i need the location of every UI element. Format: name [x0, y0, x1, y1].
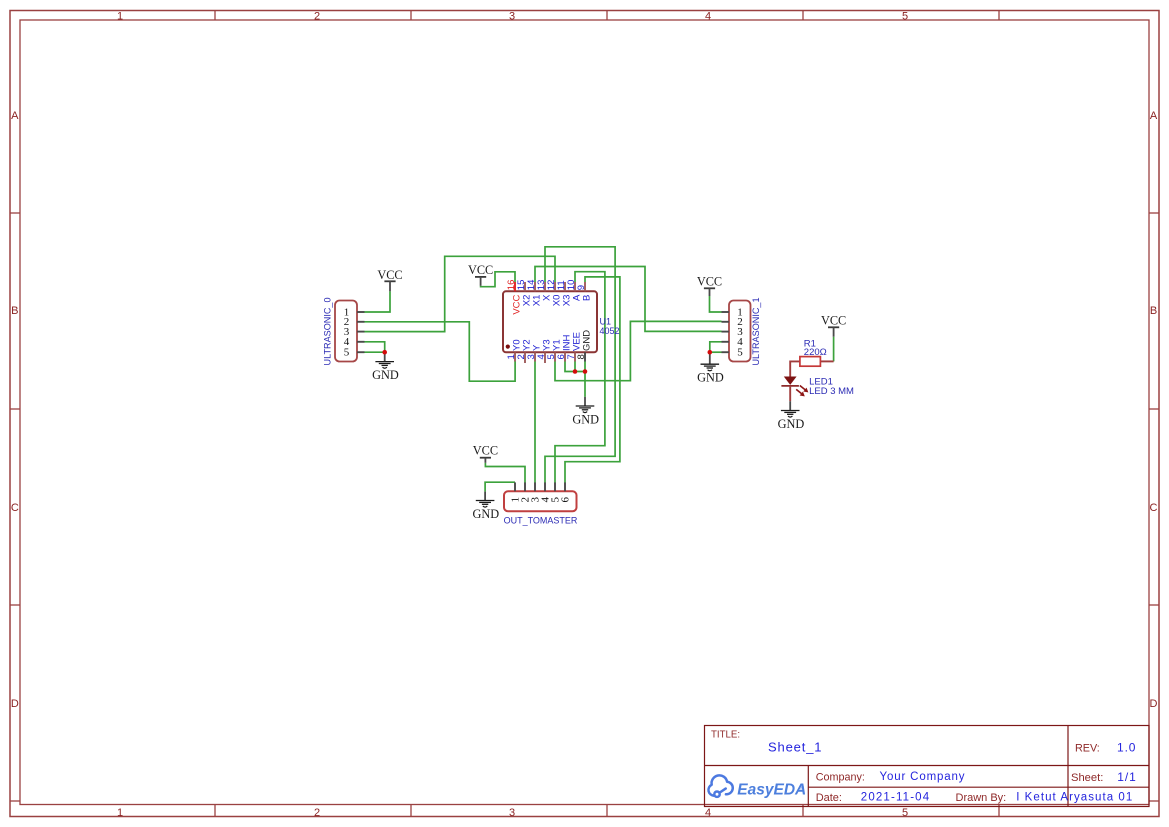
svg-text:GND: GND [572, 412, 599, 426]
svg-text:VCC: VCC [697, 274, 722, 288]
svg-text:3: 3 [509, 807, 515, 819]
svg-text:Sheet_1: Sheet_1 [768, 740, 822, 755]
U1 pin1 marker dot [506, 345, 510, 349]
LED1 cathode bar [781, 385, 799, 387]
svg-text:GND: GND [697, 371, 724, 385]
svg-text:C: C [11, 502, 19, 514]
svg-text:Drawn By:: Drawn By: [956, 792, 1007, 804]
svg-text:VCC: VCC [377, 268, 402, 282]
svg-text:ULTRASONIC_1: ULTRASONIC_1 [751, 297, 761, 365]
title block outline [705, 726, 1150, 807]
wire U1 pin7 VEE stub down [574, 361, 576, 371]
wire U0.5 to GND [365, 351, 385, 353]
frame row ticks left [10, 213, 20, 801]
wire ULTRASONIC_1 pin4 down to junction [710, 342, 722, 352]
wire net U1 pin5 Y1 to ULTRASONIC_1 pin2 [555, 321, 722, 380]
svg-text:220Ω: 220Ω [804, 347, 827, 358]
svg-text:B: B [11, 305, 18, 317]
title block labels [711, 729, 1103, 804]
wire ULTRASONIC_1 pin5 to GND [710, 351, 722, 353]
svg-text:4: 4 [705, 11, 711, 23]
svg-text:OUT_TOMASTER: OUT_TOMASTER [504, 516, 578, 526]
VCC symbol at R1/LED [821, 313, 846, 336]
connector OUT_TOMASTER body [504, 491, 577, 511]
VCC symbol at ULTRASONIC_0 [377, 268, 402, 292]
svg-text:1.0: 1.0 [1117, 741, 1136, 755]
junction dot U0 pins4-5 [382, 350, 387, 355]
svg-text:2: 2 [314, 807, 320, 819]
ground symbol at OUT_TOMASTER [472, 492, 499, 521]
svg-text:4: 4 [705, 807, 711, 819]
wire VCC to U1 pin16 [481, 272, 515, 287]
svg-text:TITLE:: TITLE: [711, 729, 740, 740]
resistor R1 body [800, 357, 821, 367]
wire net U0.2 to U1 pin1 Y0 [365, 322, 516, 381]
svg-text:GND: GND [581, 330, 592, 351]
svg-text:LED 3 MM: LED 3 MM [809, 386, 854, 397]
svg-text:9: 9 [576, 285, 587, 290]
svg-text:5: 5 [902, 11, 908, 23]
svg-text:1/1: 1/1 [1117, 770, 1136, 784]
svg-text:B: B [1150, 305, 1157, 317]
junction dot U1 pin8 [583, 369, 588, 374]
svg-text:VCC: VCC [473, 444, 498, 458]
svg-text:A: A [1150, 110, 1158, 122]
wire VCC to OUT pin2 [485, 463, 525, 483]
svg-text:1: 1 [117, 11, 123, 23]
svg-text:5: 5 [344, 347, 350, 359]
LED1 light arrow 1 [800, 386, 808, 392]
ground symbol at ULTRASONIC_1 [697, 352, 724, 384]
svg-text:Your Company: Your Company [880, 771, 966, 783]
OUT_TOMASTER pin numbers [509, 497, 571, 503]
wire U0.4 down to junction [365, 342, 385, 352]
svg-text:3: 3 [509, 11, 515, 23]
svg-text:Date:: Date: [816, 792, 842, 804]
frame column labels top [117, 11, 908, 23]
ULTRASONIC_1 pin stubs [722, 312, 730, 352]
title block values [768, 740, 1137, 804]
frame column labels bottom [117, 807, 908, 819]
svg-text:D: D [1150, 698, 1158, 710]
U1 bottom pin stubs [515, 352, 585, 363]
svg-text:ULTRASONIC_0: ULTRASONIC_0 [322, 297, 332, 365]
ULTRASONIC_1 pin numbers [737, 306, 743, 358]
svg-text:5: 5 [902, 807, 908, 819]
svg-text:VCC: VCC [468, 263, 493, 277]
frame row labels right [1150, 110, 1158, 710]
wire net U0.3 to U1 pin12 X0 [365, 256, 556, 331]
wire net U0.1 to VCC [365, 291, 391, 312]
svg-text:2021-11-04: 2021-11-04 [861, 792, 930, 804]
svg-text:A: A [11, 110, 19, 122]
wire U1 pin6 INH to ground net [565, 361, 585, 371]
ULTRASONIC_0 pin numbers [344, 306, 350, 358]
svg-text:GND: GND [372, 368, 399, 382]
resistor R1 right pin [820, 360, 833, 362]
wire net U1 pin3 Y to OUT pin3 [534, 361, 536, 482]
ground symbol at U1 pin8 [572, 397, 599, 427]
ULTRASONIC_0 pin stubs [357, 312, 365, 352]
wire net U1 pin14 X1 to ULTRASONIC_1 pin3 [535, 267, 722, 332]
wire net U1 pin10 A to OUT pin5 [555, 272, 605, 483]
svg-text:GND: GND [778, 417, 805, 431]
svg-text:Sheet:: Sheet: [1071, 772, 1103, 784]
resistor R1 left pin [790, 361, 800, 376]
IC U1 4052 analog multiplexer body [503, 291, 597, 352]
svg-text:B: B [581, 295, 592, 301]
wire OUT pin1 to GND [485, 482, 515, 491]
wire net U1 pin13 X to OUT pin4 [545, 247, 615, 483]
svg-text:I Ketut Aryasuta 01: I Ketut Aryasuta 01 [1016, 792, 1133, 804]
wire ULTRASONIC_1 pin1 to VCC [710, 296, 722, 312]
U1 top pin stubs [515, 282, 585, 291]
junction dot ULTRASONIC_1 pins4-5 [708, 350, 713, 355]
svg-text:C: C [1150, 502, 1158, 514]
wire net U1 pin9 B to OUT pin6 [565, 277, 620, 483]
wire VCC to R1 [833, 337, 835, 362]
VCC symbol at OUT_TOMASTER [473, 444, 498, 463]
connector ULTRASONIC_0 body [335, 301, 357, 362]
frame column ticks top [215, 11, 999, 21]
EasyEDA logo [708, 775, 732, 797]
LED1 cathode lead [789, 386, 791, 401]
svg-text:2: 2 [314, 11, 320, 23]
svg-text:GND: GND [472, 507, 499, 521]
svg-text:D: D [11, 698, 19, 710]
svg-text:REV:: REV: [1075, 743, 1100, 755]
frame row labels left [11, 110, 19, 710]
LED1 light arrow 2 [796, 389, 804, 395]
ground symbol at ULTRASONIC_0 [372, 352, 399, 382]
svg-text:1: 1 [117, 807, 123, 819]
frame column ticks bottom [215, 805, 999, 817]
svg-text:5: 5 [737, 347, 743, 359]
ground symbol at LED1 [778, 401, 805, 431]
frame row ticks right [1149, 213, 1159, 801]
VCC symbol at U1 pin16 [468, 263, 493, 286]
LED1 triangle [784, 377, 797, 385]
junction dot U1 pin7 [573, 369, 578, 374]
wire U1 pin8 GND down [584, 361, 586, 397]
svg-text:EasyEDA: EasyEDA [737, 782, 806, 799]
svg-text:4052: 4052 [600, 326, 620, 336]
svg-text:Company:: Company: [816, 772, 865, 784]
connector ULTRASONIC_1 body [729, 301, 751, 362]
svg-text:6: 6 [559, 497, 571, 503]
OUT_TOMASTER pin stubs [515, 482, 565, 491]
svg-text:8: 8 [576, 354, 587, 359]
svg-text:VCC: VCC [821, 313, 846, 327]
svg-text:®: ® [800, 785, 805, 792]
VCC symbol at ULTRASONIC_1 [697, 274, 722, 296]
